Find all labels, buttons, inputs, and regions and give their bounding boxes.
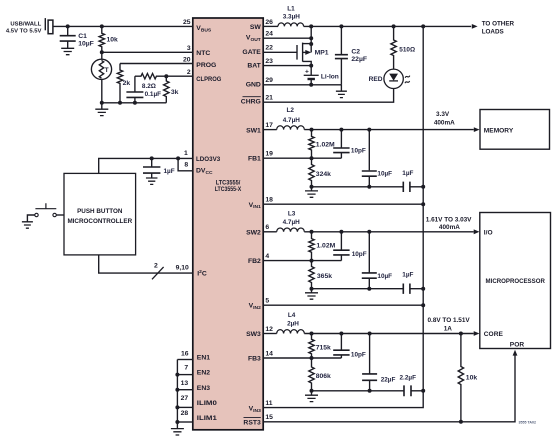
svg-text:FB1: FB1 bbox=[248, 156, 261, 163]
svg-text:1.02M: 1.02M bbox=[316, 141, 335, 148]
ground below NTC rail bbox=[101, 103, 103, 109]
svg-text:26: 26 bbox=[265, 19, 273, 26]
svg-text:10µF: 10µF bbox=[377, 273, 392, 280]
transistor MP1 PMOS bbox=[263, 51, 297, 53]
capacitor C1 10uF bbox=[67, 26, 69, 35]
wire push button to microcontroller bbox=[56, 214, 64, 216]
svg-text:11: 11 bbox=[265, 400, 272, 407]
wire ILIM1 stub bbox=[177, 421, 192, 423]
block PUSH BUTTON MICROCONTROLLER bbox=[64, 173, 136, 255]
capacitor C2 22uF bbox=[340, 26, 342, 54]
svg-text:20: 20 bbox=[183, 56, 191, 63]
node 510 ohm top junction bbox=[392, 24, 396, 28]
ground below C2 bbox=[340, 85, 342, 91]
wire VIN3 pin 11 to rail bbox=[263, 391, 423, 408]
svg-text:SW: SW bbox=[250, 24, 262, 31]
wire SW2 pin 6 to L3 bbox=[263, 231, 277, 233]
wire row3 bottom rail bbox=[312, 390, 405, 392]
svg-text:19: 19 bbox=[265, 151, 273, 158]
wire LED to CHRG pin 21 bbox=[263, 89, 393, 103]
wire VBUS from connector to pin 25 bbox=[53, 25, 193, 27]
svg-text:L3: L3 bbox=[288, 210, 296, 217]
svg-text:5: 5 bbox=[265, 298, 269, 305]
wire SW pin 26 to L1 bbox=[263, 25, 278, 27]
svg-text:ILIM1: ILIM1 bbox=[197, 415, 217, 422]
node L1 output junction bbox=[309, 24, 313, 28]
svg-text:3k: 3k bbox=[171, 89, 179, 96]
node 10pF top junction row3 bbox=[339, 332, 343, 336]
wire microcontroller to LDO3V3 pin 1 bbox=[99, 158, 193, 173]
svg-text:MEMORY: MEMORY bbox=[484, 127, 514, 134]
svg-text:10k: 10k bbox=[107, 37, 119, 44]
svg-text:CORE: CORE bbox=[484, 331, 504, 338]
node row1 divider ground junction bbox=[310, 185, 314, 189]
wire RST3 pin 15 to POR bbox=[263, 355, 515, 421]
svg-text:0.1µF: 0.1µF bbox=[145, 91, 162, 98]
wire EN3 stub bbox=[177, 389, 192, 391]
push button switch bbox=[35, 213, 38, 216]
capacitor 1uF row2 bbox=[403, 284, 410, 294]
svg-text:4.7µH: 4.7µH bbox=[283, 117, 301, 124]
svg-text:MICROCONTROLLER: MICROCONTROLLER bbox=[67, 218, 132, 225]
svg-text:I/O: I/O bbox=[484, 229, 493, 236]
node rail junction at 2k bbox=[118, 101, 122, 105]
svg-text:2: 2 bbox=[187, 69, 191, 76]
connector USB plug symbol bbox=[44, 18, 46, 30]
svg-text:8: 8 bbox=[184, 161, 188, 168]
resistor 715k bbox=[309, 334, 314, 359]
node L2 output junction bbox=[310, 128, 314, 132]
node EN3 junction bbox=[175, 388, 179, 392]
wire ground rail under NTC network bbox=[102, 102, 167, 104]
svg-text:7: 7 bbox=[184, 365, 188, 372]
block MICROPROCESSOR bbox=[480, 213, 551, 349]
LED RED bbox=[384, 69, 403, 88]
svg-text:MICROPROCESSOR: MICROPROCESSOR bbox=[486, 278, 546, 285]
node C2 top junction bbox=[339, 24, 343, 28]
node rail top junction bbox=[421, 24, 425, 28]
svg-text:FB2: FB2 bbox=[248, 258, 261, 265]
svg-text:16: 16 bbox=[181, 351, 189, 358]
wire ILIM0 stub bbox=[177, 406, 192, 408]
wire EN2 stub bbox=[177, 374, 192, 376]
wire SW2 output to I/O arrow bbox=[304, 231, 473, 233]
node C1 junction bbox=[66, 24, 70, 28]
wire FB2 pin 4 bbox=[263, 260, 341, 262]
wire SW3 pin 12 to L4 bbox=[263, 333, 277, 335]
svg-text:SW3: SW3 bbox=[246, 331, 261, 338]
svg-text:1A: 1A bbox=[444, 325, 453, 332]
resistor 3k CLPROG bbox=[164, 76, 169, 103]
node NTC junction bbox=[100, 50, 104, 54]
node 10pF top junction row1 bbox=[339, 128, 343, 132]
svg-text:FB3: FB3 bbox=[248, 356, 261, 363]
svg-text:CLPROG: CLPROG bbox=[196, 76, 221, 83]
inductor L3 4.7uH bbox=[277, 228, 305, 232]
wire NTC to pin 3 bbox=[102, 51, 193, 53]
resistor 1.02M row2 bbox=[309, 232, 314, 261]
wire FB1 pin 19 bbox=[263, 157, 341, 159]
svg-text:RST3: RST3 bbox=[243, 419, 261, 426]
svg-text:LTC3555-X: LTC3555-X bbox=[215, 186, 242, 193]
svg-text:29: 29 bbox=[265, 77, 273, 84]
svg-text:400mA: 400mA bbox=[434, 119, 455, 126]
svg-text:C1: C1 bbox=[78, 33, 87, 40]
ground below C1 bbox=[61, 48, 74, 54]
svg-text:Li-Ion: Li-Ion bbox=[321, 74, 339, 81]
svg-text:1: 1 bbox=[184, 150, 188, 157]
svg-text:BAT: BAT bbox=[247, 62, 261, 69]
node 2.2uF rail junction bbox=[421, 389, 425, 393]
node FB2 junction bbox=[310, 259, 314, 263]
wire microcontroller to I2C pins 9,10 bbox=[99, 255, 193, 273]
svg-text:22: 22 bbox=[265, 45, 273, 52]
wire VIN2 pin 5 to rail bbox=[263, 304, 423, 306]
svg-text:L1: L1 bbox=[287, 6, 295, 13]
capacitor 1uF row1 bbox=[403, 182, 410, 192]
node 10k pullup top junction bbox=[459, 332, 463, 336]
IC U1 LTC3555/LTC3555-X body bbox=[193, 18, 263, 430]
svg-text:23: 23 bbox=[265, 58, 273, 65]
svg-text:806k: 806k bbox=[316, 373, 331, 380]
svg-text:EN1: EN1 bbox=[197, 355, 210, 362]
resistor 1.02M row1 bbox=[309, 130, 314, 159]
battery Li-Ion bbox=[310, 66, 312, 76]
svg-text:1µF: 1µF bbox=[402, 170, 413, 177]
node FB1 junction bbox=[310, 156, 314, 160]
svg-text:4.7µH: 4.7µH bbox=[283, 219, 301, 226]
svg-text:2.2µF: 2.2µF bbox=[400, 375, 417, 382]
node 1uF rail junction row2 bbox=[421, 287, 425, 291]
svg-text:13: 13 bbox=[181, 380, 189, 387]
svg-text:SW1: SW1 bbox=[246, 127, 261, 134]
svg-text:POR: POR bbox=[510, 342, 525, 349]
node VOUT junction bbox=[309, 36, 313, 40]
svg-text:3.3V: 3.3V bbox=[436, 111, 450, 118]
node row3 divider ground junction bbox=[310, 389, 314, 393]
svg-text:22µF: 22µF bbox=[381, 377, 396, 384]
svg-text:10µF: 10µF bbox=[377, 171, 392, 178]
wire EN1 stub bbox=[177, 359, 192, 361]
node ILIM1 junction bbox=[175, 420, 179, 424]
node 10k RST3 junction bbox=[459, 420, 463, 424]
LED light squiggles bbox=[405, 76, 410, 84]
svg-text:10pF: 10pF bbox=[351, 352, 366, 359]
node 10k top junction bbox=[100, 24, 104, 28]
svg-text:USB/WALL: USB/WALL bbox=[10, 21, 41, 27]
node 22uF bottom junction bbox=[368, 389, 372, 393]
node EN2 junction bbox=[175, 373, 179, 377]
resistor 8.2 ohm bbox=[135, 74, 166, 79]
svg-text:8.2Ω: 8.2Ω bbox=[142, 83, 156, 90]
node 1uF rail junction row1 bbox=[421, 185, 425, 189]
bus slash I2C bbox=[152, 267, 164, 279]
wire VOUT top rail to arrow bbox=[304, 25, 472, 27]
resistor 806k bbox=[309, 358, 314, 391]
wire VOUT pin 24 to MP1 bbox=[263, 37, 311, 39]
svg-text:24: 24 bbox=[265, 31, 273, 38]
svg-text:LOADS: LOADS bbox=[482, 28, 504, 35]
wire EN bus vertical bbox=[176, 360, 178, 423]
wire thermistor to ground rail bbox=[101, 79, 103, 103]
svg-text:400mA: 400mA bbox=[439, 224, 460, 231]
wire BAT pin 23 to battery bbox=[263, 65, 311, 67]
svg-text:ILIM0: ILIM0 bbox=[197, 400, 217, 407]
node L4 output junction bbox=[310, 332, 314, 336]
svg-text:L2: L2 bbox=[286, 107, 294, 114]
svg-text:17: 17 bbox=[265, 122, 273, 129]
svg-text:10pF: 10pF bbox=[351, 148, 366, 155]
svg-text:1µF: 1µF bbox=[164, 168, 175, 175]
svg-text:510Ω: 510Ω bbox=[399, 47, 415, 54]
wire CLPROG to pin 2 bbox=[166, 75, 193, 77]
thermistor T bbox=[101, 52, 103, 59]
wire GND pin 29 bbox=[263, 84, 341, 86]
svg-text:I2C: I2C bbox=[197, 269, 207, 277]
svg-text:22µF: 22µF bbox=[351, 56, 367, 63]
node FB3 junction bbox=[310, 356, 314, 360]
svg-text:6: 6 bbox=[265, 224, 269, 231]
svg-text:PUSH BUTTON: PUSH BUTTON bbox=[77, 208, 123, 215]
svg-text:715k: 715k bbox=[316, 345, 331, 352]
svg-text:324k: 324k bbox=[316, 171, 331, 178]
wire VOUT rail vertical bbox=[422, 26, 424, 390]
capacitor 10pF row2 bbox=[340, 232, 342, 250]
svg-text:GATE: GATE bbox=[242, 49, 261, 56]
svg-text:MP1: MP1 bbox=[315, 50, 329, 57]
node rail junction at 0.1uF bbox=[133, 101, 137, 105]
svg-text:3555 TA02: 3555 TA02 bbox=[519, 421, 537, 425]
svg-text:27: 27 bbox=[181, 395, 189, 402]
svg-text:1.61V TO 3.03V: 1.61V TO 3.03V bbox=[426, 216, 472, 223]
svg-text:12: 12 bbox=[265, 326, 273, 333]
svg-text:L4: L4 bbox=[288, 312, 296, 319]
svg-text:0.8V TO 1.51V: 0.8V TO 1.51V bbox=[428, 317, 471, 324]
node VIN1 rail junction bbox=[421, 202, 425, 206]
node 1uF junction bbox=[150, 156, 154, 160]
wire push button to ground bbox=[27, 215, 34, 222]
ground below 365k bbox=[311, 289, 313, 293]
svg-text:14: 14 bbox=[265, 350, 273, 357]
ground below 324k bbox=[311, 187, 313, 191]
svg-text:EN3: EN3 bbox=[197, 385, 210, 392]
node 10uF bottom junction row2 bbox=[367, 287, 371, 291]
node 10uF top junction row1 bbox=[367, 128, 371, 132]
capacitor 10pF row3 bbox=[340, 334, 342, 351]
svg-text:10µF: 10µF bbox=[78, 41, 94, 48]
capacitor 2.2uF bbox=[404, 385, 411, 396]
svg-text:1.02M: 1.02M bbox=[316, 242, 335, 249]
capacitor 10uF row1 bbox=[368, 130, 370, 171]
svg-text:15: 15 bbox=[265, 414, 273, 421]
svg-text:GND: GND bbox=[246, 82, 261, 89]
ground below 806k bbox=[311, 391, 313, 395]
wire DVCC tie to pin 8 bbox=[178, 158, 193, 170]
svg-text:10pF: 10pF bbox=[352, 251, 367, 258]
node 10pF top junction row2 bbox=[339, 230, 343, 234]
node ILIM0 junction bbox=[175, 405, 179, 409]
wire SW1 output to MEMORY arrow bbox=[304, 129, 474, 131]
svg-text:1µF: 1µF bbox=[402, 272, 413, 279]
ground below 1uF bbox=[146, 178, 158, 184]
node L3 output junction bbox=[310, 230, 314, 234]
svg-text:10k: 10k bbox=[466, 375, 478, 382]
node DVCC tie junction bbox=[176, 156, 180, 160]
inductor L2 4.7uH bbox=[277, 126, 305, 130]
svg-text:SW2: SW2 bbox=[246, 229, 261, 236]
svg-text:4: 4 bbox=[265, 253, 269, 260]
wire SW3 output to CORE arrow bbox=[304, 333, 473, 335]
resistor 365k bbox=[309, 261, 314, 289]
node 10uF bottom junction row1 bbox=[367, 185, 371, 189]
wire VIN1 pin 18 to rail bbox=[263, 203, 423, 205]
capacitor 0.1uF bbox=[134, 76, 136, 92]
arrow to other loads bbox=[472, 24, 478, 29]
node MP1 body tie junction bbox=[309, 42, 313, 46]
ground below push button bbox=[22, 222, 33, 228]
svg-text:+: + bbox=[305, 68, 309, 75]
svg-text:25: 25 bbox=[183, 19, 191, 26]
svg-text:CHRG: CHRG bbox=[241, 99, 261, 106]
svg-text:C2: C2 bbox=[351, 48, 360, 55]
inductor L1 3.3uH bbox=[278, 23, 304, 27]
svg-text:365k: 365k bbox=[317, 273, 332, 280]
svg-text:9,10: 9,10 bbox=[176, 264, 189, 271]
node row2 divider ground junction bbox=[310, 287, 314, 291]
capacitor 10uF row2 bbox=[368, 232, 370, 273]
node 22uF top junction bbox=[368, 332, 372, 336]
svg-text:2k: 2k bbox=[123, 80, 131, 87]
block MEMORY bbox=[480, 110, 550, 150]
resistor 510 ohm bbox=[391, 26, 396, 69]
node BAT junction bbox=[309, 64, 313, 68]
svg-text:2µH: 2µH bbox=[287, 320, 299, 327]
svg-text:2: 2 bbox=[154, 263, 158, 270]
svg-text:3.3µH: 3.3µH bbox=[283, 14, 301, 21]
svg-text:EN2: EN2 bbox=[197, 370, 210, 377]
svg-text:LDO3V3: LDO3V3 bbox=[196, 156, 220, 163]
node 10uF top junction row2 bbox=[367, 230, 371, 234]
inductor L4 2uH bbox=[277, 330, 305, 334]
wire row1 bottom rail bbox=[312, 186, 404, 188]
svg-text:TO OTHER: TO OTHER bbox=[482, 20, 515, 27]
svg-text:28: 28 bbox=[181, 410, 189, 417]
node CLPROG junction bbox=[164, 74, 168, 78]
capacitor 1uF LDO3V3 bbox=[151, 158, 153, 167]
svg-text:21: 21 bbox=[265, 95, 273, 102]
resistor 324k bbox=[309, 158, 314, 187]
wire PROG to pin 20 bbox=[120, 63, 193, 65]
svg-text:18: 18 bbox=[265, 197, 273, 204]
capacitor 10pF row1 bbox=[340, 130, 342, 148]
wire MP1 source vertical bbox=[310, 26, 312, 52]
resistor 10k input divider bbox=[99, 26, 104, 52]
node rail junction at thermistor bbox=[100, 101, 104, 105]
wire SW1 pin 17 to L2 bbox=[263, 129, 277, 131]
wire FB3 pin 14 bbox=[263, 357, 341, 359]
svg-text:3: 3 bbox=[187, 45, 191, 52]
svg-text:RED: RED bbox=[369, 76, 383, 83]
ground below EN bus bbox=[176, 422, 178, 429]
resistor 10k RST3 pullup bbox=[458, 334, 463, 422]
arrow up to POR bbox=[513, 350, 518, 356]
svg-text:T: T bbox=[105, 67, 109, 74]
node battery ground junction bbox=[309, 83, 313, 87]
svg-text:4.5V TO 5.5V: 4.5V TO 5.5V bbox=[6, 29, 42, 35]
svg-text:NTC: NTC bbox=[196, 50, 210, 57]
capacitor 22uF row3 bbox=[369, 334, 371, 374]
node VIN2 rail junction bbox=[421, 303, 425, 307]
resistor 2k PROG bbox=[117, 64, 122, 103]
svg-text:PROG: PROG bbox=[196, 62, 216, 69]
wire row2 bottom rail bbox=[312, 288, 404, 290]
